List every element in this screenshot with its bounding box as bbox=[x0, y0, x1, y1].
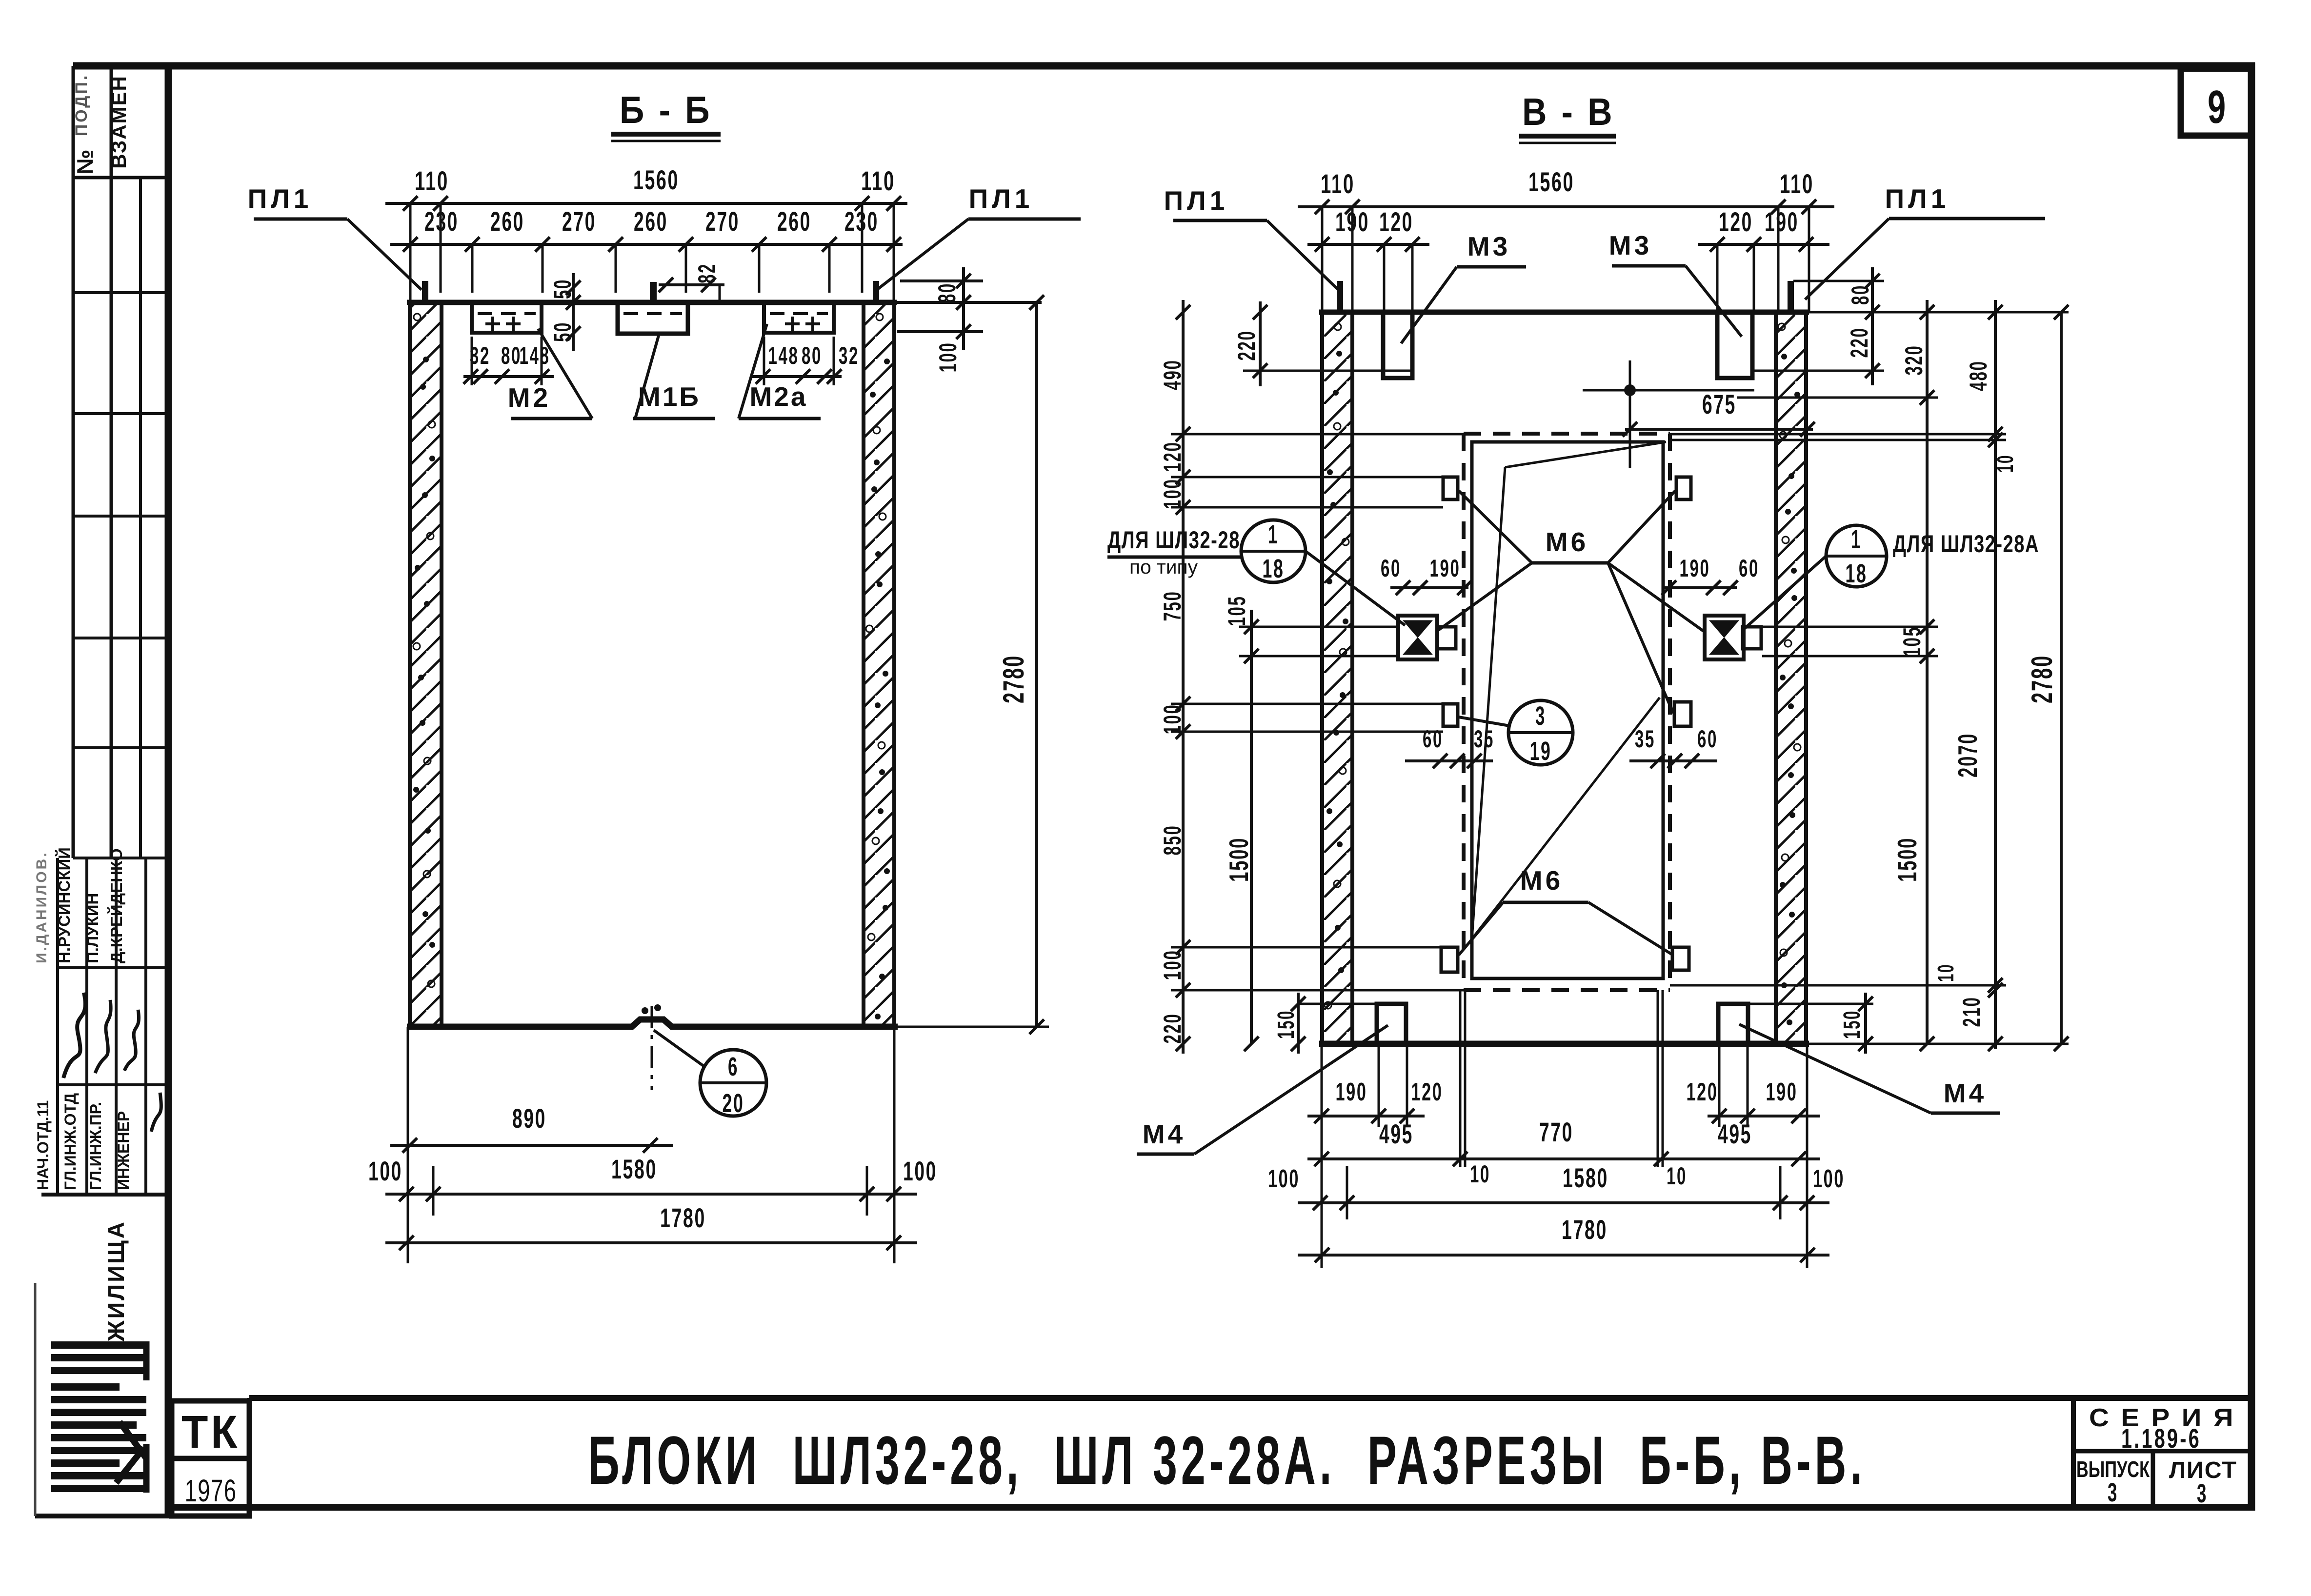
svg-text:110: 110 bbox=[1321, 168, 1355, 199]
svg-text:490: 490 bbox=[1159, 359, 1186, 390]
svg-text:35: 35 bbox=[1474, 725, 1494, 753]
svg-text:80: 80 bbox=[1847, 284, 1874, 305]
svg-text:№: № bbox=[72, 147, 98, 174]
svg-text:110: 110 bbox=[415, 165, 449, 196]
svg-text:М4: М4 bbox=[1944, 1078, 1987, 1108]
svg-text:НАЧ.ОТД.11: НАЧ.ОТД.11 bbox=[34, 1100, 52, 1190]
svg-text:1976: 1976 bbox=[185, 1473, 237, 1508]
svg-text:ГЛ.ИНЖ.ПР.: ГЛ.ИНЖ.ПР. bbox=[87, 1102, 104, 1190]
svg-text:100: 100 bbox=[1159, 479, 1186, 509]
svg-text:ГЛ.ИНЖ.ОТД: ГЛ.ИНЖ.ОТД bbox=[61, 1093, 79, 1190]
svg-text:32: 32 bbox=[839, 342, 859, 369]
svg-text:100: 100 bbox=[1268, 1165, 1300, 1193]
svg-text:60: 60 bbox=[1381, 555, 1401, 582]
svg-text:ВЗАМЕН: ВЗАМЕН bbox=[107, 75, 130, 169]
svg-text:М6: М6 bbox=[1546, 527, 1588, 557]
svg-text:190: 190 bbox=[1766, 1078, 1798, 1106]
svg-text:890: 890 bbox=[512, 1103, 546, 1134]
svg-text:100: 100 bbox=[903, 1156, 937, 1186]
svg-text:2070: 2070 bbox=[1952, 733, 1983, 778]
svg-text:ДЛЯ ШЛ32-28: ДЛЯ ШЛ32-28 bbox=[1107, 526, 1240, 554]
svg-text:3: 3 bbox=[2197, 1479, 2208, 1508]
svg-text:Н.РУСИНСКИЙ: Н.РУСИНСКИЙ bbox=[55, 847, 73, 963]
svg-text:по типу: по типу bbox=[1129, 557, 1198, 578]
svg-text:120: 120 bbox=[1719, 206, 1753, 237]
svg-text:1500: 1500 bbox=[1224, 837, 1254, 882]
svg-text:270: 270 bbox=[705, 206, 740, 237]
svg-text:М4: М4 bbox=[1143, 1119, 1186, 1149]
svg-text:9: 9 bbox=[2208, 81, 2227, 133]
svg-text:Д.КРЕЙДЕНКО: Д.КРЕЙДЕНКО bbox=[107, 848, 125, 963]
svg-text:ЖИЛИЩА: ЖИЛИЩА bbox=[103, 1220, 129, 1342]
svg-text:770: 770 bbox=[1539, 1117, 1573, 1147]
svg-text:М2: М2 bbox=[508, 382, 551, 413]
svg-text:ИНЖЕНЕР: ИНЖЕНЕР bbox=[115, 1111, 132, 1190]
svg-text:1780: 1780 bbox=[660, 1202, 706, 1233]
svg-text:210: 210 bbox=[1958, 997, 1985, 1027]
svg-text:220: 220 bbox=[1159, 1013, 1186, 1044]
svg-text:ПЛ1: ПЛ1 bbox=[248, 183, 313, 214]
svg-text:1580: 1580 bbox=[1563, 1162, 1608, 1193]
svg-text:20: 20 bbox=[723, 1089, 744, 1118]
svg-text:1580: 1580 bbox=[611, 1154, 657, 1184]
svg-text:105: 105 bbox=[1223, 596, 1250, 626]
svg-text:М3: М3 bbox=[1467, 231, 1510, 261]
svg-text:2780: 2780 bbox=[997, 655, 1030, 703]
svg-text:120: 120 bbox=[1159, 441, 1186, 472]
svg-text:3: 3 bbox=[2108, 1478, 2118, 1507]
svg-text:50: 50 bbox=[549, 279, 576, 299]
svg-text:ПЛ1: ПЛ1 bbox=[1885, 183, 1950, 214]
svg-text:100: 100 bbox=[1813, 1165, 1845, 1193]
svg-text:1: 1 bbox=[1851, 525, 1862, 554]
svg-text:190: 190 bbox=[1765, 206, 1799, 237]
svg-text:80: 80 bbox=[933, 282, 961, 303]
svg-text:М3: М3 bbox=[1609, 230, 1652, 260]
svg-text:60: 60 bbox=[1423, 725, 1443, 753]
svg-text:2780: 2780 bbox=[2026, 655, 2058, 703]
svg-text:3: 3 bbox=[1535, 701, 1546, 731]
svg-text:1.189-6: 1.189-6 bbox=[2121, 1423, 2201, 1454]
svg-text:148: 148 bbox=[520, 342, 550, 369]
svg-text:18: 18 bbox=[1846, 559, 1868, 588]
svg-text:82: 82 bbox=[693, 263, 721, 283]
svg-text:220: 220 bbox=[1846, 327, 1873, 358]
svg-text:260: 260 bbox=[490, 206, 524, 237]
svg-text:1: 1 bbox=[1268, 520, 1279, 549]
svg-text:120: 120 bbox=[1411, 1078, 1443, 1106]
svg-text:И.ДАНИЛОВ.: И.ДАНИЛОВ. bbox=[34, 851, 50, 963]
svg-text:М1Б: М1Б bbox=[638, 381, 701, 412]
svg-text:270: 270 bbox=[562, 206, 596, 237]
svg-text:1500: 1500 bbox=[1892, 837, 1922, 882]
svg-text:35: 35 bbox=[1635, 725, 1655, 753]
svg-text:260: 260 bbox=[777, 206, 811, 237]
svg-text:10: 10 bbox=[1933, 963, 1958, 982]
svg-text:ПЛ1: ПЛ1 bbox=[1164, 185, 1229, 216]
svg-text:750: 750 bbox=[1159, 591, 1186, 621]
svg-text:БЛОКИ ШЛ32-28, ШЛ 32-28А. Р: БЛОКИ ШЛ32-28, ШЛ 32-28А. РАЗРЕЗЫ Б-Б, В… bbox=[588, 1422, 1866, 1498]
svg-text:495: 495 bbox=[1379, 1118, 1413, 1149]
svg-text:850: 850 bbox=[1159, 825, 1186, 856]
svg-text:10: 10 bbox=[1992, 454, 2018, 473]
svg-text:М6: М6 bbox=[1520, 865, 1563, 896]
svg-text:10: 10 bbox=[1470, 1160, 1490, 1188]
svg-text:60: 60 bbox=[1697, 725, 1718, 753]
svg-text:320: 320 bbox=[1900, 345, 1928, 376]
svg-text:110: 110 bbox=[1780, 168, 1814, 199]
svg-text:10: 10 bbox=[1667, 1162, 1687, 1190]
svg-text:495: 495 bbox=[1718, 1118, 1752, 1149]
svg-text:6: 6 bbox=[728, 1052, 739, 1081]
svg-text:120: 120 bbox=[1687, 1078, 1718, 1106]
svg-text:260: 260 bbox=[634, 206, 668, 237]
svg-text:Б - Б: Б - Б bbox=[620, 88, 712, 131]
svg-text:1560: 1560 bbox=[633, 164, 679, 195]
svg-text:190: 190 bbox=[1680, 555, 1710, 582]
svg-text:220: 220 bbox=[1233, 330, 1260, 361]
svg-text:150: 150 bbox=[1839, 1010, 1865, 1039]
svg-text:П.ЛУКИН: П.ЛУКИН bbox=[83, 893, 101, 963]
svg-text:100: 100 bbox=[368, 1156, 402, 1186]
svg-text:ПЛ1: ПЛ1 bbox=[969, 183, 1034, 214]
svg-text:675: 675 bbox=[1702, 389, 1736, 419]
svg-text:М2а: М2а bbox=[750, 381, 808, 412]
svg-text:190: 190 bbox=[1336, 1078, 1367, 1106]
svg-text:480: 480 bbox=[1965, 360, 1992, 391]
svg-text:148: 148 bbox=[768, 342, 799, 369]
svg-text:190: 190 bbox=[1430, 555, 1461, 582]
svg-text:80: 80 bbox=[501, 342, 522, 369]
svg-text:ДЛЯ ШЛ32-28А: ДЛЯ ШЛ32-28А bbox=[1893, 530, 2039, 558]
svg-text:80: 80 bbox=[802, 342, 822, 369]
svg-text:18: 18 bbox=[1263, 554, 1285, 583]
svg-text:60: 60 bbox=[1739, 555, 1759, 582]
svg-text:ПОДП.: ПОДП. bbox=[72, 74, 91, 137]
svg-text:1560: 1560 bbox=[1528, 166, 1574, 197]
svg-text:110: 110 bbox=[861, 165, 895, 196]
svg-text:19: 19 bbox=[1530, 737, 1552, 766]
svg-text:В - В: В - В bbox=[1522, 90, 1615, 133]
svg-text:ТК: ТК bbox=[181, 1406, 240, 1458]
svg-text:100: 100 bbox=[1159, 950, 1186, 980]
svg-text:100: 100 bbox=[934, 342, 962, 373]
svg-text:105: 105 bbox=[1898, 626, 1926, 657]
svg-text:50: 50 bbox=[549, 321, 576, 342]
svg-text:100: 100 bbox=[1159, 704, 1186, 735]
svg-text:150: 150 bbox=[1273, 1010, 1299, 1039]
svg-text:1780: 1780 bbox=[1562, 1214, 1608, 1245]
svg-text:120: 120 bbox=[1379, 206, 1413, 237]
